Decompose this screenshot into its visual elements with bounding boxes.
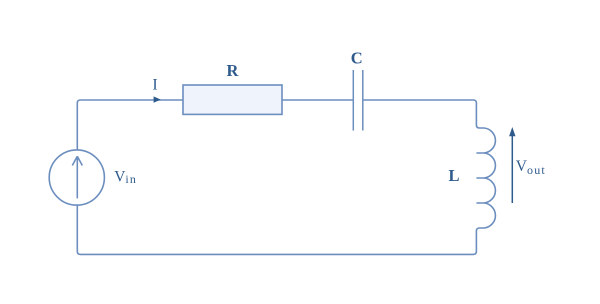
- Vout arrow (vertical, head up): [511, 134, 513, 203]
- resistor R (rectangle): [183, 85, 282, 114]
- wire: inductor bottom to bottom-right corner: [470, 228, 484, 254]
- svg-text:I: I: [152, 77, 157, 94]
- svg-text:R: R: [227, 61, 240, 80]
- svg-text:L: L: [448, 166, 459, 185]
- svg-text:C: C: [351, 49, 363, 68]
- wire: resistor to capacitor: [282, 99, 353, 101]
- capacitor C (two plates): [353, 70, 363, 131]
- inductor L (coil of 4 arcs): [484, 128, 495, 228]
- wire: capacitor to top-right corner and down to inductor: [363, 100, 484, 128]
- current arrow I (arrowhead on top wire): [154, 96, 161, 102]
- voltage source internal arrow: [72, 156, 82, 198]
- wire: bottom return wire: [77, 205, 470, 254]
- wire: left vertical from source top to top-left corner, then top wire to resistor: [77, 100, 183, 150]
- voltage source Vin (circle): [49, 150, 104, 205]
- inductor junction ticks: [476, 153, 484, 203]
